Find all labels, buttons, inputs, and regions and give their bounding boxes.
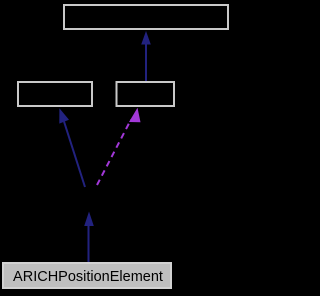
arrow bottom box upward (solid, vertical) (84, 212, 94, 263)
node box top (64, 5, 228, 29)
inheritance arrow junction to middle-left (solid diagonal) (59, 108, 85, 187)
usage arrow junction to middle-right (dashed purple) (97, 108, 141, 185)
node box ARICHPositionElement (3, 263, 171, 288)
node box middle-left (18, 82, 92, 106)
svg-text:ARICHPositionElement: ARICHPositionElement (13, 269, 163, 285)
inheritance arrow middle-right to top (solid) (141, 31, 151, 81)
node box middle-right (117, 82, 175, 106)
